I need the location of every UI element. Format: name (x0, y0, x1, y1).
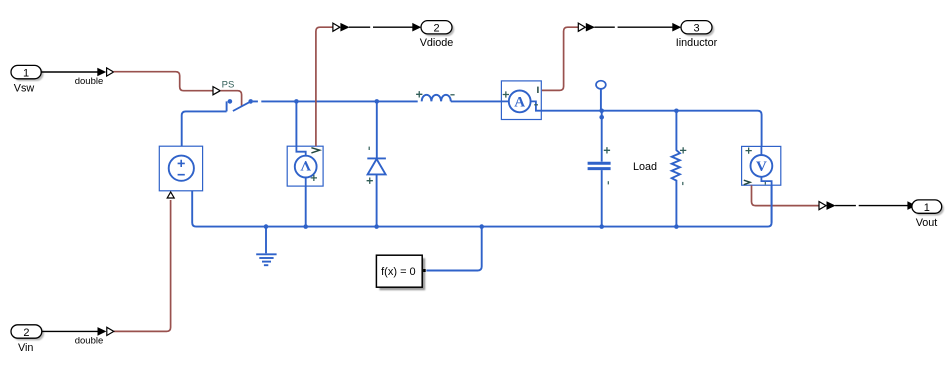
svg-text:f(x) = 0: f(x) = 0 (381, 266, 416, 278)
converter port triangle (PS-Simulink Vout) (819, 202, 826, 210)
svg-text:Vdiode: Vdiode (420, 37, 454, 49)
capacitor C1 (588, 111, 611, 227)
svg-text:1: 1 (23, 67, 29, 79)
svg-text:3: 3 (693, 23, 699, 35)
converter port triangle (PS-Simulink Vdiode) (333, 23, 340, 31)
svg-text:1: 1 (924, 202, 930, 214)
wire top rail right (541, 111, 761, 147)
svg-text:Iinductor: Iinductor (676, 37, 718, 49)
wire PS Vin control (114, 200, 171, 331)
svg-text:PS: PS (222, 80, 235, 91)
wire PS Vout (752, 185, 819, 205)
current sensor U2 (A) (501, 81, 541, 120)
inport 2 Vin (11, 325, 44, 354)
svg-text:V: V (300, 157, 311, 173)
wire Vsw signal (41, 68, 106, 87)
wire switch to node A (top rail left) (253, 100, 418, 102)
diode D1 (367, 101, 386, 226)
converter port triangle (PS-Simulink Iinductor) (578, 23, 585, 31)
svg-text:double: double (75, 335, 104, 346)
outport 1 Vout (912, 200, 944, 229)
wire Vout signal (827, 201, 917, 210)
outport 3 Iinductor (676, 21, 718, 49)
inductor L1 (416, 91, 455, 101)
converter port triangle (Simulink-PS in) (107, 68, 114, 76)
node junction sensor V1 (303, 224, 308, 229)
svg-text:double: double (75, 76, 104, 87)
wire PS Iinductor up (542, 27, 578, 90)
bottom rail wire (192, 185, 771, 226)
voltage source B1 (159, 146, 202, 191)
svg-text:V: V (756, 159, 767, 175)
svg-text:Vin: Vin (18, 342, 33, 354)
node junction resistor (674, 109, 679, 114)
resistor R1 Load (672, 111, 687, 227)
inport 1 Vsw (11, 65, 43, 94)
control port triangle of source (167, 192, 174, 198)
svg-text:A: A (514, 95, 525, 111)
svg-text:2: 2 (23, 327, 29, 339)
wire solver to rail (426, 227, 481, 271)
ground G1 (256, 227, 276, 266)
node junction resistor (674, 224, 679, 229)
voltage sensor U3 (Vout) (742, 146, 781, 185)
svg-text:Vout: Vout (916, 217, 938, 229)
node junction solver (479, 224, 484, 229)
node junction dots capacitor (599, 109, 604, 114)
wire Iinductor signal (586, 23, 681, 32)
wire sensor V1 bottom to ground rail (305, 186, 307, 227)
node open terminal (596, 81, 606, 111)
converter port triangle (Simulink-PS Vin) (107, 327, 114, 335)
wire sensor V3 bottom to rail (771, 185, 773, 222)
node junction diode (374, 224, 379, 229)
outport 2 Vdiode (420, 21, 455, 49)
solver block f(x)=0 (376, 255, 425, 290)
node junction at diode branch (375, 99, 380, 104)
voltage sensor U1 (Vdiode, flipped) (287, 146, 323, 186)
wire Vdiode signal (340, 23, 421, 32)
wire PS Vdiode up (316, 27, 333, 146)
node junction at sensor V1 branch (294, 99, 299, 104)
wire Vin signal (42, 327, 107, 346)
svg-text:2: 2 (433, 23, 439, 35)
converter port triangle (PS in of switch ctrl) (213, 87, 220, 95)
svg-text:Vsw: Vsw (14, 83, 35, 95)
wire PS to switch control (220, 91, 241, 107)
wire inductor to current sensor (451, 100, 502, 102)
node junction capacitor (599, 224, 604, 229)
node junction ground (264, 224, 269, 229)
wire down to voltage sensor V1 (295, 101, 297, 146)
svg-text:Load: Load (633, 161, 657, 173)
wire source top to switch (182, 111, 227, 146)
switch S1 (227, 99, 253, 111)
wire PS Vsw (physical signal) (114, 72, 213, 91)
